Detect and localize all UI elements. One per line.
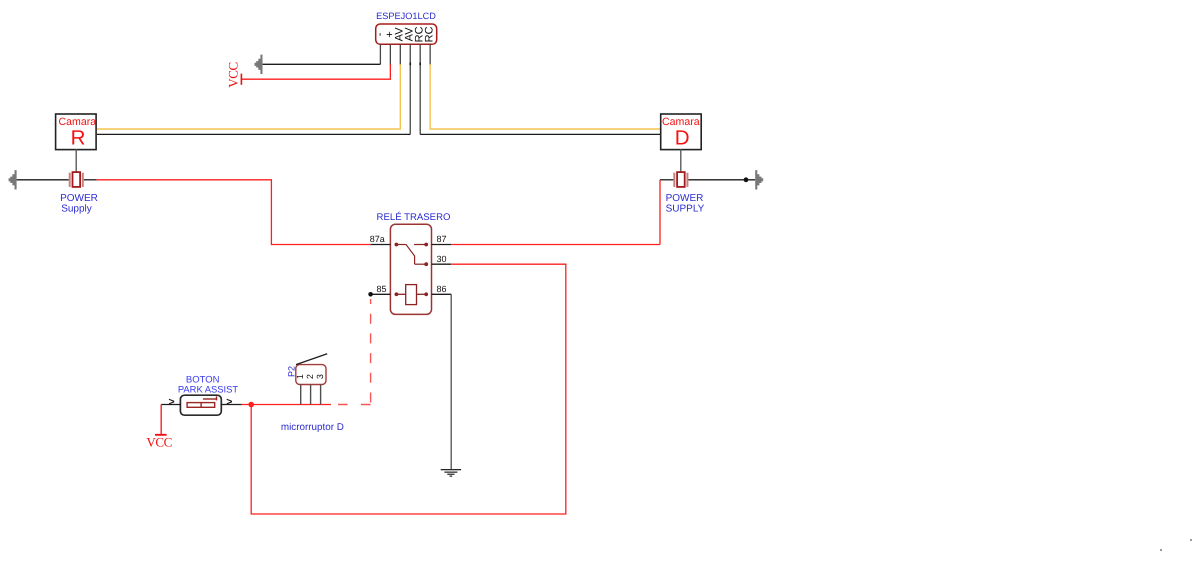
svg-text:PARK ASSIST: PARK ASSIST: [178, 384, 239, 395]
block Camara D: [661, 114, 702, 150]
block ESPEJO1LCD: [376, 24, 437, 44]
svg-text:>: >: [226, 396, 232, 408]
svg-text:30: 30: [437, 254, 447, 264]
relay contact dots: [395, 243, 429, 297]
ground bottom: [441, 469, 461, 477]
wire POWER SUPPLY stub left (black): [660, 179, 673, 181]
svg-text:R: R: [71, 126, 86, 149]
svg-text:POWER: POWER: [666, 193, 704, 204]
wire microswitch pin2 (gray): [310, 385, 312, 405]
wire button right (black): [221, 404, 242, 406]
svg-text:RELÉ TRASERO: RELÉ TRASERO: [377, 211, 451, 223]
wire relay pin 30 stub (black): [432, 263, 452, 265]
wire relay 86 down (gray): [450, 294, 452, 469]
svg-text:POWER: POWER: [60, 193, 98, 204]
wire pin4 to Camara R (black): [97, 133, 410, 135]
wire dashed red from junction 85 to microswitch pin 3: [370, 299, 372, 405]
wire relay pin 87 stub (black): [432, 244, 452, 246]
block Camara R: [56, 114, 97, 150]
wire pin1 to top ground (black): [379, 44, 381, 64]
power VCC bottom: [146, 435, 172, 450]
wire POWER Supply stub right (black): [84, 179, 97, 181]
wire pin2 stub (black): [389, 44, 391, 65]
wire left ground to POWER Supply (black): [17, 179, 69, 181]
svg-text:3: 3: [315, 374, 325, 379]
microswitch lever: [296, 354, 327, 365]
power VCC top: [226, 62, 242, 88]
junction dot near right ground: [744, 177, 749, 182]
svg-text:ESPEJO1LCD: ESPEJO1LCD: [376, 11, 436, 21]
wire POWER Supply to relay 87a (red): [97, 180, 371, 245]
svg-text:VCC: VCC: [146, 435, 172, 450]
wire pin4 vertical (gray): [409, 44, 411, 134]
wire POWER SUPPLY down to relay 87 (red): [659, 180, 661, 245]
svg-text:microrruptor D: microrruptor D: [281, 422, 344, 433]
svg-text:RC: RC: [424, 26, 436, 42]
svg-text:87: 87: [437, 234, 447, 244]
wire button to VCC (red): [160, 405, 162, 435]
wire pin5 to Camara D (black): [420, 133, 660, 135]
connector POWER Supply (left): [69, 172, 84, 187]
wire relay pin 86 stub (black): [432, 293, 452, 295]
wire relay pin 85 stub (black): [371, 293, 391, 295]
wire pin3 to Camara R (yellow): [97, 64, 400, 129]
svg-text:2: 2: [305, 374, 315, 379]
relay coil: [396, 285, 426, 305]
wire pin2 to VCC (red): [242, 64, 390, 79]
svg-text:Supply: Supply: [61, 203, 92, 214]
svg-text:87a: 87a: [370, 234, 385, 244]
wire microswitch pin1 (gray): [300, 385, 302, 405]
wire relay 87 to right POWER SUPPLY (red): [451, 244, 660, 246]
svg-text:1: 1: [295, 374, 305, 379]
wire button left (black): [161, 404, 181, 406]
wire button junction to microswitch (red): [242, 404, 331, 406]
junction dot red: [248, 402, 254, 408]
svg-text:SUPPLY: SUPPLY: [666, 203, 705, 214]
svg-text:85: 85: [376, 284, 386, 294]
microswitch P2 box: [296, 365, 326, 385]
wire Camara D to power supply (gray pin): [680, 149, 682, 172]
button internal pushbutton symbol: [187, 396, 216, 407]
svg-text:VCC: VCC: [226, 62, 241, 88]
ground left: [9, 170, 17, 189]
wire pin5 vertical (gray): [419, 44, 421, 134]
relay RELÉ TRASERO box: [390, 224, 431, 314]
svg-text:86: 86: [437, 284, 447, 294]
ground top near ESPEJO: [254, 55, 262, 74]
svg-text:D: D: [675, 126, 690, 149]
connector POWER SUPPLY (right): [673, 172, 688, 187]
button BOTON PARK ASSIST box: [180, 395, 221, 415]
wire relay pin 87a stub (black): [371, 244, 391, 246]
wire pin6 to Camara D (yellow): [430, 64, 660, 129]
wire microswitch pin3 (gray): [320, 385, 322, 405]
wire pin6 stub (black): [429, 44, 431, 65]
wire pin3 stub (black): [399, 44, 401, 65]
ground right: [755, 170, 763, 189]
junction node pin85 / microswitch: [368, 292, 373, 297]
svg-text:>: >: [169, 396, 175, 408]
wire POWER SUPPLY to right ground (black): [688, 179, 755, 181]
relay switch contacts and arm: [396, 244, 426, 264]
wire relay 30 loop to button junction (red): [251, 264, 566, 514]
wire Camara R to power supply (gray pin): [75, 149, 77, 172]
